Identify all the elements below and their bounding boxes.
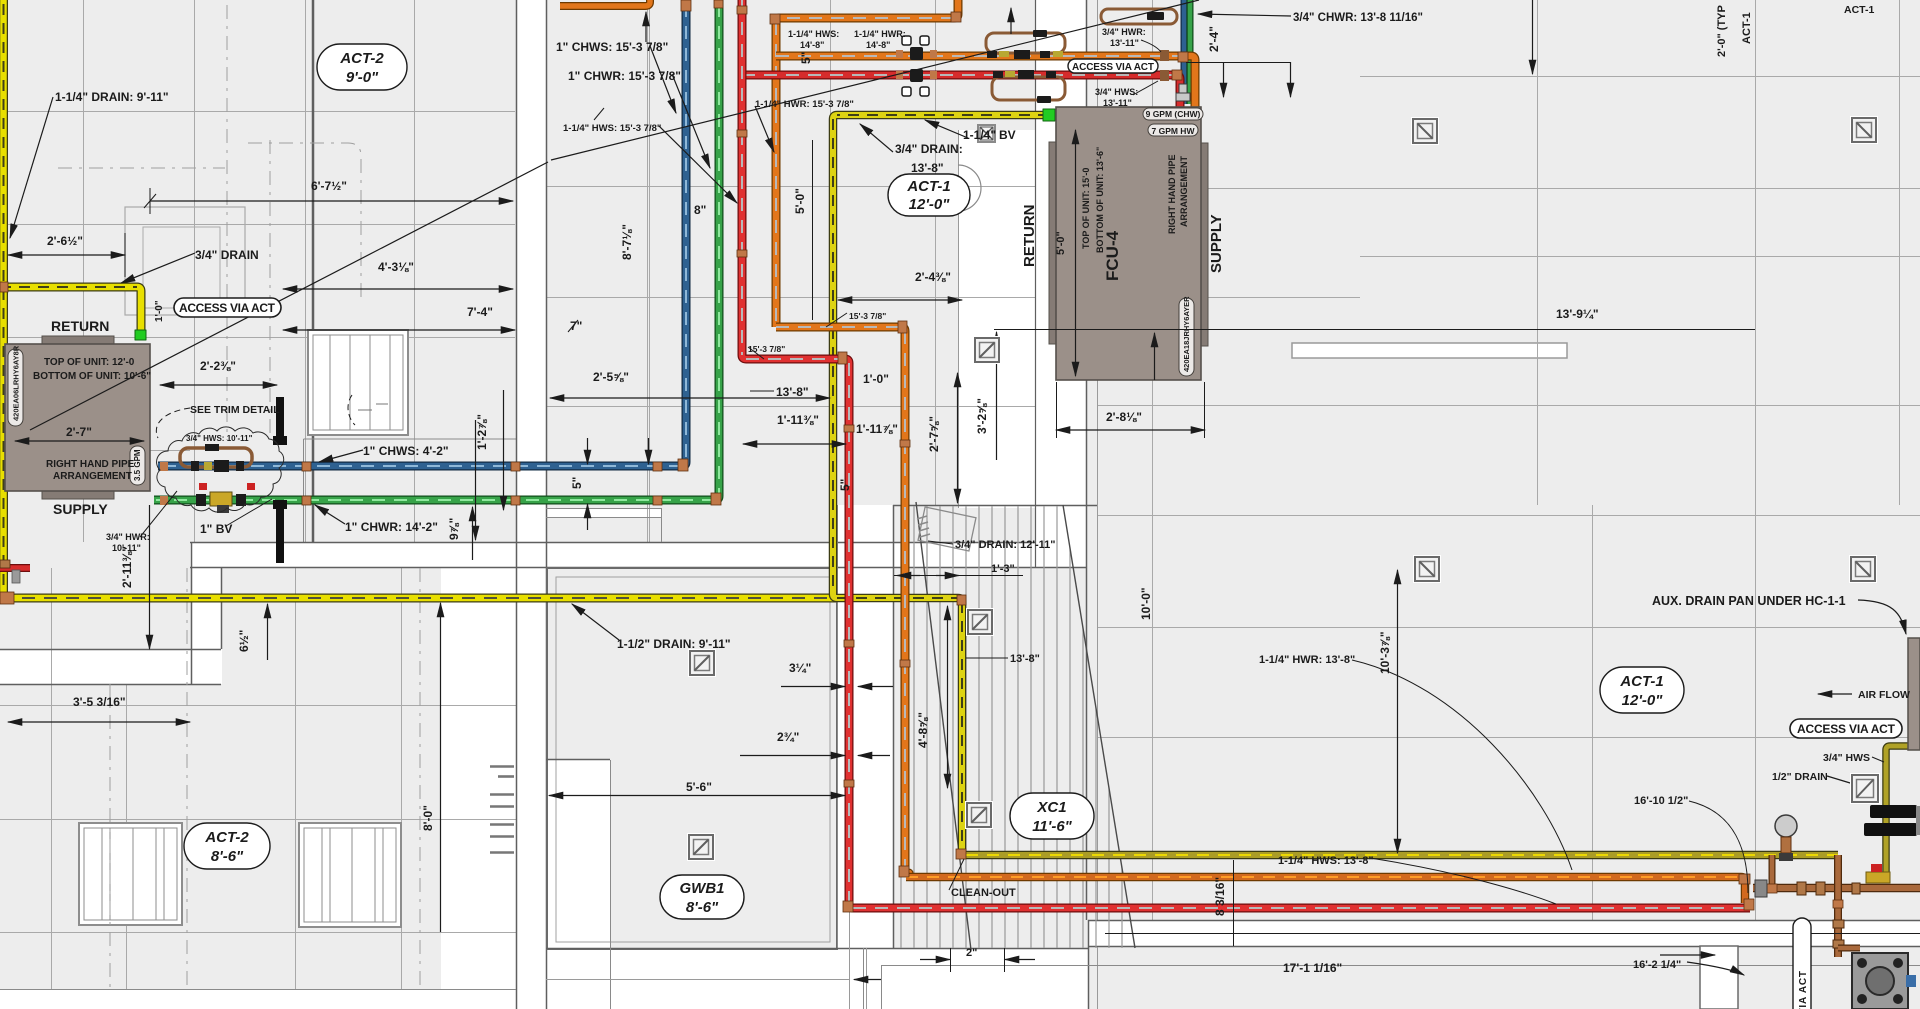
hatch slanted edges — [916, 502, 971, 950]
pump — [1852, 953, 1908, 1009]
comb marks on wall — [490, 767, 514, 853]
FCU texts — [1021, 109, 1225, 372]
svg-text:1" CHWR: 15'-3 7/8": 1" CHWR: 15'-3 7/8" — [568, 69, 681, 83]
svg-text:16'-10 1/2": 16'-10 1/2" — [1634, 795, 1688, 807]
tag ACT-1 12ft oval (right) — [1600, 667, 1684, 713]
GWB1 room outline — [547, 568, 837, 949]
svg-text:2": 2" — [966, 947, 977, 959]
white strip left of corridor bottom — [441, 568, 516, 1009]
dim 1'-11 3/8 — [743, 443, 846, 445]
svg-text:ACCESS VIA ACT: ACCESS VIA ACT — [179, 301, 276, 315]
svg-text:10'-3⅞": 10'-3⅞" — [1378, 631, 1392, 674]
olive FCU condensate drain — [833, 115, 1049, 851]
room below corridor bottom-left — [546, 760, 610, 1009]
svg-text:12'-0": 12'-0" — [909, 196, 951, 213]
striped tile box bottom-left 2 — [299, 823, 401, 927]
dim 2'-6 1/2 — [8, 254, 125, 256]
small wall white band right of corridor — [546, 508, 662, 518]
tag ACCESS VIA ACT (bottom right, vertical) — [1793, 918, 1811, 1009]
svg-text:AUX. DRAIN PAN UNDER HC-1-1: AUX. DRAIN PAN UNDER HC-1-1 — [1652, 594, 1846, 608]
pipe and dimension labels, left/top — [47, 40, 1599, 709]
wall band above GWB — [190, 542, 1035, 544]
pipe and dimension labels, bottom/right — [617, 4, 1910, 975]
svg-text:5'-0": 5'-0" — [1055, 231, 1067, 255]
dim 2'-5 5/8 — [550, 397, 830, 399]
svg-text:TOP OF UNIT: 12'-0: TOP OF UNIT: 12'-0 — [44, 357, 135, 368]
svg-text:14'-8": 14'-8" — [866, 40, 890, 50]
drain pan tilted rect — [917, 507, 976, 551]
svg-text:1'-2⅞": 1'-2⅞" — [475, 414, 489, 450]
svg-text:1/2" DRAIN: 1/2" DRAIN — [1772, 771, 1828, 783]
svg-text:1-1/4" HWR: 13'-8": 1-1/4" HWR: 13'-8" — [1259, 654, 1355, 666]
dim 9 7/8 left — [472, 507, 474, 560]
svg-text:11'-6": 11'-6" — [1032, 818, 1072, 835]
corridor center white band — [1035, 0, 1086, 568]
svg-text:6½": 6½" — [237, 630, 251, 652]
svg-text:8'-6": 8'-6" — [211, 848, 244, 865]
dim 13'-9 1/4 line — [994, 329, 1755, 331]
red stub left — [0, 564, 30, 572]
svg-text:3'-2⅝": 3'-2⅝" — [975, 398, 989, 434]
svg-text:1" CHWR: 14'-2": 1" CHWR: 14'-2" — [345, 520, 438, 534]
svg-text:16'-2 1/4": 16'-2 1/4" — [1633, 959, 1681, 971]
svg-text:13'-11": 13'-11" — [1110, 38, 1139, 48]
tag GWB1 oval — [660, 875, 744, 919]
fittings row on red line — [993, 71, 1003, 78]
orange stub top edge — [560, 0, 650, 6]
dim 2'-0 TYP arrow — [1532, 0, 1534, 74]
left zone vertical grid — [83, 0, 85, 542]
svg-text:1-1/4" HWS: 15'-3 7/8": 1-1/4" HWS: 15'-3 7/8" — [563, 123, 661, 134]
dim 6'-7 1/2 — [150, 200, 513, 202]
8 3/16 dim vertical — [1233, 860, 1235, 946]
svg-text:1'-11⅜": 1'-11⅜" — [777, 413, 819, 427]
tag ACCESS VIA ACT (right) — [1790, 719, 1902, 738]
dashed duct lines top-left — [58, 5, 420, 990]
dim 2in bottom — [920, 959, 950, 961]
17'-1 dim line — [1105, 933, 1920, 935]
right zone horizontal grid — [1360, 76, 1920, 78]
svg-text:13'-11": 13'-11" — [1103, 98, 1132, 108]
dim 3'-5 3/16 — [8, 721, 190, 723]
black riser bars — [276, 397, 284, 444]
orange HWR system — [776, 0, 958, 327]
svg-text:1-1/4" DRAIN: 9'-11": 1-1/4" DRAIN: 9'-11" — [55, 90, 169, 104]
dim 4'-3 1/8 — [283, 288, 513, 290]
dim 3'-2 5/8 vertical — [996, 332, 998, 460]
svg-text:420EA18JRHY6AYER: 420EA18JRHY6AYER — [1182, 296, 1191, 372]
svg-text:ACT-2: ACT-2 — [204, 829, 249, 846]
svg-text:13'-8": 13'-8" — [776, 385, 809, 399]
svg-text:8 3/16": 8 3/16" — [1213, 877, 1227, 916]
mid rooms vertical grid — [647, 0, 649, 542]
svg-text:ACCESS VIA ACT: ACCESS VIA ACT — [1798, 971, 1809, 1009]
svg-text:ACT-1: ACT-1 — [906, 178, 950, 195]
svg-text:3'-5 3/16": 3'-5 3/16" — [73, 695, 126, 709]
svg-text:8'-0": 8'-0" — [421, 805, 435, 831]
svg-text:2'-4⅜": 2'-4⅜" — [915, 270, 951, 284]
svg-text:17'-1 1/16": 17'-1 1/16" — [1283, 961, 1342, 975]
svg-text:RETURN: RETURN — [1021, 205, 1038, 268]
svg-text:2'-6½": 2'-6½" — [47, 234, 83, 248]
yellow long drain horizontal y=598 — [0, 594, 836, 603]
svg-text:SEE TRIM DETAIL: SEE TRIM DETAIL — [190, 404, 280, 416]
svg-text:14'-8": 14'-8" — [800, 40, 824, 50]
svg-text:ACT-1: ACT-1 — [1741, 12, 1753, 44]
right-mid small wall — [546, 508, 662, 510]
svg-text:3/4" HWS:: 3/4" HWS: — [1095, 87, 1138, 97]
dim 6 1/2 up arrow — [267, 604, 269, 660]
corridor walls — [516, 0, 518, 1009]
svg-text:ACCESS VIA ACT: ACCESS VIA ACT — [1797, 722, 1896, 736]
right olive 3/4 HWS drop — [1886, 746, 1913, 878]
yellow drain top-left horizontal + drop — [0, 287, 141, 332]
svg-text:1-1/2" DRAIN: 9'-11": 1-1/2" DRAIN: 9'-11" — [617, 637, 731, 651]
svg-text:2'-2⅜": 2'-2⅜" — [200, 359, 236, 373]
yellow drain riser left edge — [0, 0, 8, 598]
svg-text:3/4" DRAIN: 12'-11": 3/4" DRAIN: 12'-11" — [955, 539, 1055, 551]
svg-text:ARRANGEMENT: ARRANGEMENT — [53, 471, 132, 482]
dim 5'-6 — [549, 795, 845, 797]
svg-text:8'-6": 8'-6" — [686, 899, 719, 916]
HC-1-1 unit right edge — [1908, 638, 1920, 750]
white bar light fixture right — [1292, 343, 1567, 358]
white equip box bottom right area — [1700, 946, 1738, 1009]
long diagonal leader D2 — [551, 0, 1199, 160]
svg-text:1" CHWS: 15'-3 7/8": 1" CHWS: 15'-3 7/8" — [556, 40, 668, 54]
bottom wall band right — [1088, 920, 1920, 947]
dim 5in markers — [587, 438, 589, 464]
svg-text:3/4" HWS: 10'-11": 3/4" HWS: 10'-11" — [186, 434, 253, 443]
dim 2'-7 unit — [15, 440, 144, 442]
leaders — [10, 97, 53, 238]
svg-text:7 GPM HW: 7 GPM HW — [1152, 126, 1196, 136]
svg-text:8": 8" — [694, 203, 706, 217]
center corridor walls — [958, 130, 960, 508]
svg-text:ACT-1: ACT-1 — [1844, 4, 1874, 16]
svg-text:3/4" CHWR: 13'-8 11/16": 3/4" CHWR: 13'-8 11/16" — [1293, 12, 1423, 24]
svg-text:15'-3 7/8": 15'-3 7/8" — [849, 311, 886, 321]
left edge fittings at unit — [0, 560, 10, 568]
dim 2 3/4 — [740, 755, 845, 757]
svg-text:3/4" HWS: 3/4" HWS — [1823, 752, 1870, 764]
dim 1'-3 — [894, 575, 1023, 577]
rotated dims left/mid — [120, 5, 1753, 916]
dim 10'-3 7/8 vertical — [1397, 570, 1399, 853]
tag ACT-1 12ft oval (top) — [888, 174, 970, 216]
fittings row on orange line — [987, 51, 997, 58]
svg-text:2'-8⅛": 2'-8⅛" — [1106, 410, 1142, 424]
svg-text:12'-0": 12'-0" — [1622, 692, 1664, 709]
striped ceiling tile box upper — [308, 330, 408, 435]
left unit texts — [12, 345, 152, 482]
striped tile box bottom-left 1 — [79, 823, 182, 925]
svg-text:ACT-2: ACT-2 — [339, 50, 384, 67]
dim 3 1/4 — [781, 686, 845, 688]
svg-text:15'-3 7/8": 15'-3 7/8" — [748, 344, 785, 354]
svg-text:5'-6": 5'-6" — [686, 780, 712, 794]
svg-text:2'-11⅜": 2'-11⅜" — [120, 546, 134, 588]
svg-text:1'-11⅞": 1'-11⅞" — [856, 422, 898, 436]
7in tick — [568, 320, 578, 332]
blue CHWS — [1181, 0, 1188, 104]
bottom white strip center — [516, 949, 1088, 1009]
svg-text:420EA06LRHY6AY8R: 420EA06LRHY6AY8R — [12, 345, 21, 421]
svg-text:BV: BV — [999, 128, 1016, 142]
revision cloud around trim detail — [157, 427, 284, 512]
svg-text:2'-7": 2'-7" — [66, 425, 92, 439]
red HWS system — [742, 75, 1180, 107]
svg-text:XC1: XC1 — [1036, 799, 1066, 816]
access dashed rect top-left — [125, 207, 245, 315]
svg-text:2'-4": 2'-4" — [1207, 26, 1221, 52]
bottom walls — [546, 948, 1088, 950]
svg-text:RIGHT HAND PIPE: RIGHT HAND PIPE — [1167, 154, 1177, 234]
svg-text:1'-0": 1'-0" — [863, 372, 889, 386]
svg-text:3/4" DRAIN: 3/4" DRAIN — [195, 248, 259, 262]
dim 2'-11 3/8 vertical — [149, 505, 151, 649]
dim 4'-8 5/8 vertical — [947, 606, 949, 788]
svg-text:10'-0": 10'-0" — [1139, 587, 1153, 620]
copper assembly right — [1753, 884, 1920, 893]
green cap at FCU — [1043, 109, 1055, 121]
svg-text:2'-7⅝": 2'-7⅝" — [927, 416, 941, 452]
svg-text:1'-3": 1'-3" — [991, 563, 1015, 575]
svg-text:5": 5" — [799, 52, 813, 64]
svg-text:6'-7½": 6'-7½" — [311, 179, 347, 193]
svg-text:3/4" DRAIN:: 3/4" DRAIN: — [895, 142, 963, 156]
svg-text:13'-8": 13'-8" — [1010, 653, 1040, 665]
svg-text:5": 5" — [570, 477, 584, 489]
dim 2'-4 top verticals — [1186, 62, 1290, 64]
svg-text:ARRANGEMENT: ARRANGEMENT — [1179, 155, 1189, 227]
tag ACCESS VIA ACT (left) — [174, 298, 281, 317]
svg-text:2'-0" (TYP: 2'-0" (TYP — [1716, 5, 1728, 57]
left unit block — [42, 336, 114, 345]
FCU-4 block — [1049, 142, 1057, 344]
svg-text:13'-8": 13'-8" — [911, 161, 944, 175]
left unit cluster — [180, 448, 252, 467]
svg-text:8'-7⅛": 8'-7⅛" — [620, 224, 634, 260]
see trim detail dashed leaders — [156, 395, 355, 438]
svg-text:9 GPM (CHW): 9 GPM (CHW) — [1146, 109, 1201, 119]
L-wall bottom left — [191, 542, 193, 684]
svg-text:3.5 GPM: 3.5 GPM — [133, 449, 142, 481]
access panel squares — [687, 116, 1880, 861]
tag ACT-2 9ft oval — [317, 44, 407, 90]
svg-text:FCU-4: FCU-4 — [1103, 230, 1122, 281]
wall band above GWB rooms — [190, 542, 1036, 568]
svg-text:RIGHT HAND PIPE: RIGHT HAND PIPE — [46, 459, 135, 470]
green CHWR — [1187, 0, 1194, 104]
svg-text:1-1/4" HWS:: 1-1/4" HWS: — [788, 29, 839, 39]
svg-text:AIR FLOW: AIR FLOW — [1858, 689, 1910, 701]
svg-text:SUPPLY: SUPPLY — [1208, 214, 1225, 273]
svg-text:5'-0": 5'-0" — [793, 188, 807, 214]
oval texts — [204, 50, 1663, 916]
svg-text:3/4" HWR:: 3/4" HWR: — [1102, 27, 1146, 37]
dim 2'-8 1/8 — [1056, 429, 1205, 431]
left zone horizontal grid — [0, 111, 515, 113]
long diagonal leader D1 — [30, 162, 548, 430]
svg-text:TOP OF UNIT: 15'-0: TOP OF UNIT: 15'-0 — [1081, 168, 1091, 249]
dim 2'-4 3/8 — [838, 299, 962, 301]
svg-text:1-1/4": 1-1/4" — [963, 128, 996, 142]
svg-text:GWB1: GWB1 — [680, 880, 725, 897]
svg-text:1" BV: 1" BV — [200, 522, 232, 536]
svg-text:1-1/4" HWS: 13'-8": 1-1/4" HWS: 13'-8" — [1278, 855, 1374, 867]
right assembly — [1775, 815, 1797, 837]
svg-text:9'-0": 9'-0" — [346, 69, 379, 86]
svg-text:13'-9¼": 13'-9¼" — [1556, 307, 1599, 321]
svg-text:1'-0": 1'-0" — [154, 300, 165, 322]
svg-text:9⅞": 9⅞" — [447, 518, 461, 540]
dim 8'-0 vertical — [440, 603, 442, 932]
svg-text:7": 7" — [570, 319, 582, 333]
svg-text:CLEAN-OUT: CLEAN-OUT — [951, 887, 1016, 899]
hatch top border — [893, 505, 1097, 507]
valves on orange/red top — [896, 36, 937, 96]
dim 2'-2 3/8 — [160, 384, 277, 386]
svg-text:1-1/4" HWR: 15'-3 7/8": 1-1/4" HWR: 15'-3 7/8" — [755, 99, 854, 110]
svg-text:7'-4": 7'-4" — [467, 305, 493, 319]
right zone vertical grid — [1152, 0, 1154, 920]
FCU top connection unions — [1176, 84, 1190, 101]
mid rooms horizontal grid — [546, 186, 1035, 188]
dim 5'-0 FCU vertical — [1075, 130, 1077, 376]
svg-text:1-1/4" HWR:: 1-1/4" HWR: — [854, 29, 906, 39]
svg-text:5": 5" — [838, 479, 852, 491]
interior wall x=313 — [312, 0, 315, 542]
svg-text:SUPPLY: SUPPLY — [53, 501, 108, 517]
bypass loops top (copper racetracks) — [986, 9, 1177, 100]
svg-text:1" CHWS: 4'-2": 1" CHWS: 4'-2" — [363, 444, 449, 458]
couplings further right — [1160, 50, 1169, 61]
dim 2'-7 5/8 vertical — [957, 373, 959, 503]
5'-0in small dim line left mid — [812, 140, 814, 320]
svg-text:ACCESS VIA ACT: ACCESS VIA ACT — [1072, 62, 1154, 73]
svg-text:4'-8⅝": 4'-8⅝" — [916, 712, 930, 748]
corridor left (vertical white band) — [517, 0, 546, 1009]
svg-text:ACT-1: ACT-1 — [1619, 673, 1663, 690]
dim 7'-4 — [283, 329, 515, 331]
chase edges — [837, 505, 839, 949]
bottom-left sliver — [0, 990, 516, 1009]
svg-text:2¾": 2¾" — [777, 730, 799, 744]
svg-text:RETURN: RETURN — [51, 318, 109, 334]
tag XC1 oval — [1010, 793, 1094, 839]
svg-text:BOTTOM OF UNIT: 10'-6": BOTTOM OF UNIT: 10'-6" — [33, 371, 151, 382]
svg-text:4'-3⅛": 4'-3⅛" — [378, 260, 414, 274]
svg-text:3¼": 3¼" — [789, 661, 811, 675]
lower-left room grid — [51, 568, 53, 990]
tag ACT-2 8ft-6 oval — [184, 823, 270, 869]
L wall bottom-left — [191, 568, 222, 684]
chase white band with red pipe — [837, 505, 894, 949]
tag ACCESS VIA ACT (top center) — [1068, 59, 1158, 73]
svg-text:3/4" HWR:: 3/4" HWR: — [106, 532, 150, 542]
svg-text:2'-5⅝": 2'-5⅝" — [593, 370, 629, 384]
dim 1'-2 7/8 vertical — [475, 420, 477, 540]
green cap fitting — [135, 330, 146, 340]
